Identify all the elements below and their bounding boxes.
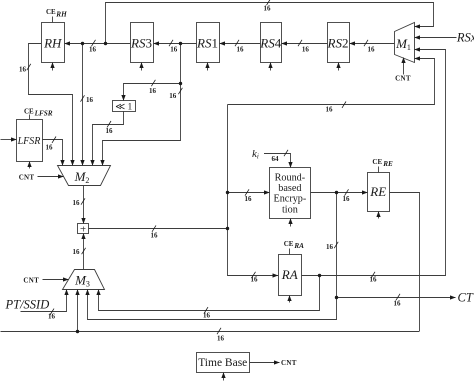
svg-text:16: 16 <box>149 87 157 95</box>
svg-text:16: 16 <box>48 313 56 321</box>
svg-text:16: 16 <box>89 46 97 54</box>
svg-text:RA: RA <box>281 267 298 282</box>
svg-text:RSx: RSx <box>456 30 474 44</box>
svg-text:M3: M3 <box>74 272 90 288</box>
svg-text:16: 16 <box>368 46 376 54</box>
svg-text:16: 16 <box>326 106 334 114</box>
svg-text:64: 64 <box>272 155 280 163</box>
svg-text:RS1: RS1 <box>196 35 218 50</box>
svg-text:16: 16 <box>46 144 54 152</box>
svg-text:16: 16 <box>203 312 211 320</box>
svg-text:16: 16 <box>106 127 114 135</box>
svg-text:16: 16 <box>264 5 272 13</box>
svg-text:CE: CE <box>46 8 56 16</box>
svg-text:PT/SSID: PT/SSID <box>5 297 50 311</box>
svg-text:RH: RH <box>43 35 62 50</box>
svg-text:16: 16 <box>394 300 402 308</box>
svg-text:16: 16 <box>251 276 259 284</box>
svg-text:16: 16 <box>237 46 245 54</box>
svg-text:based: based <box>278 183 301 194</box>
svg-text:16: 16 <box>19 66 27 74</box>
svg-text:Encryp-: Encryp- <box>273 194 306 205</box>
svg-text:ki: ki <box>252 148 259 161</box>
svg-text:RS2: RS2 <box>327 35 349 50</box>
svg-text:16: 16 <box>326 243 334 251</box>
svg-text:RE: RE <box>369 184 386 199</box>
svg-text:CNT: CNT <box>395 75 411 83</box>
svg-text:16: 16 <box>217 335 225 343</box>
svg-text:16: 16 <box>73 199 81 207</box>
svg-text:Time Base: Time Base <box>198 357 247 369</box>
svg-text:16: 16 <box>170 46 178 54</box>
svg-text:16: 16 <box>151 232 159 240</box>
svg-text:RS4: RS4 <box>259 35 281 50</box>
svg-text:16: 16 <box>86 96 94 104</box>
svg-text:CNT: CNT <box>281 359 297 367</box>
svg-text:CE: CE <box>372 158 382 166</box>
svg-text:16: 16 <box>343 195 351 203</box>
svg-text:RH: RH <box>55 10 67 18</box>
svg-text:RA: RA <box>293 242 304 250</box>
svg-text:16: 16 <box>370 276 378 284</box>
svg-text:LFSR: LFSR <box>17 136 41 147</box>
svg-text:RS3: RS3 <box>130 35 152 50</box>
svg-text:16: 16 <box>73 248 81 256</box>
svg-text:CE: CE <box>284 240 294 248</box>
svg-text:RE: RE <box>382 160 393 168</box>
svg-text:≪ 1: ≪ 1 <box>115 102 132 112</box>
svg-text:LFSR: LFSR <box>34 110 53 118</box>
svg-text:16: 16 <box>245 195 253 203</box>
svg-text:M1: M1 <box>395 36 411 52</box>
svg-text:tion: tion <box>282 204 298 215</box>
svg-text:CNT: CNT <box>19 173 35 181</box>
svg-text:CT: CT <box>458 290 474 304</box>
svg-text:CNT: CNT <box>23 276 39 284</box>
svg-text:M2: M2 <box>74 169 90 185</box>
svg-text:16: 16 <box>302 46 310 54</box>
svg-text:CE: CE <box>24 108 34 116</box>
svg-text:Round-: Round- <box>275 172 306 183</box>
svg-text:16: 16 <box>169 92 177 100</box>
